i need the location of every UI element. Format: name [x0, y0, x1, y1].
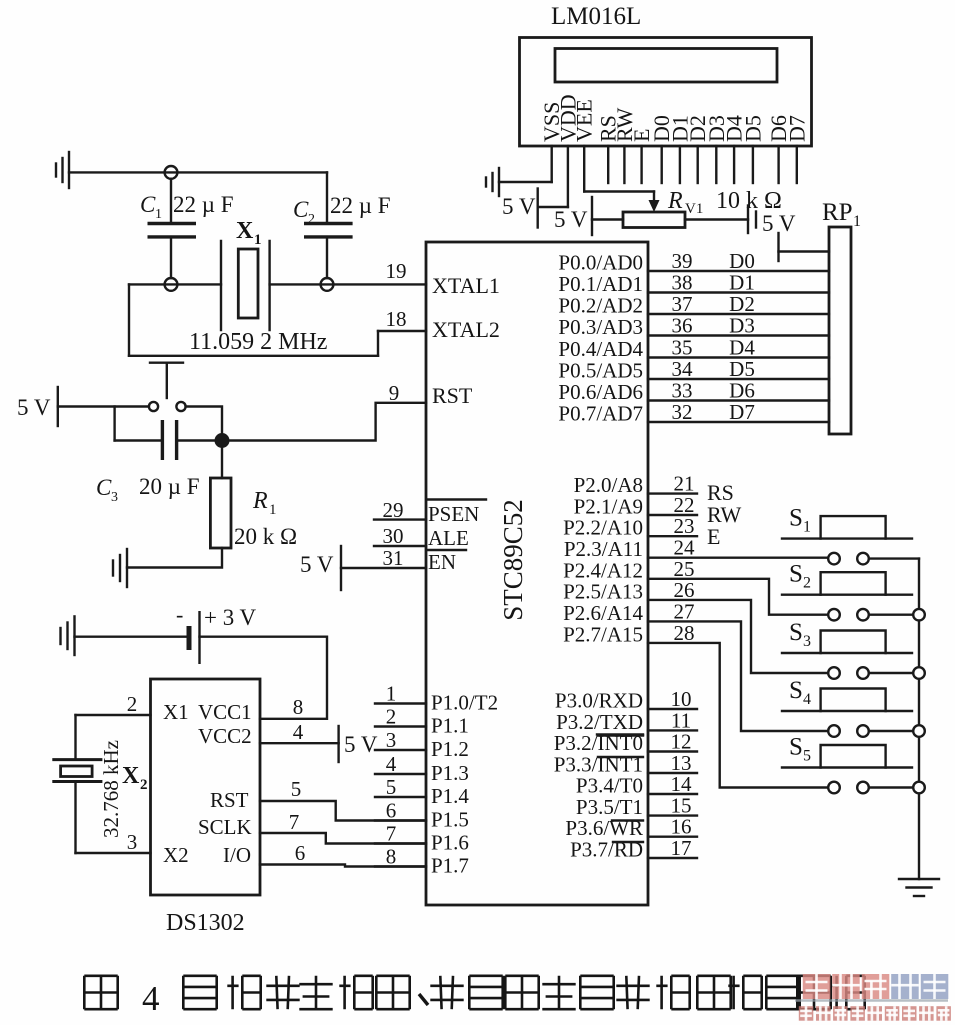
svg-text:+ 3 V: + 3 V: [204, 605, 257, 630]
svg-text:P0.2/AD2: P0.2/AD2: [558, 294, 643, 318]
wire junction down to R1: [221, 441, 223, 479]
svg-text:34: 34: [672, 357, 694, 381]
svg-text:7: 7: [289, 810, 300, 834]
svg-text:PSEN: PSEN: [428, 502, 479, 526]
wire C1 top: [170, 179, 172, 224]
LCD pin stub D4: [733, 146, 735, 183]
wire pin 38 to RP1 (net D1): [648, 291, 829, 293]
svg-text:5 V: 5 V: [17, 395, 51, 420]
wire XTAL2 net bottom rail: [129, 355, 378, 357]
svg-text:6: 6: [295, 841, 306, 865]
svg-text:-: -: [176, 602, 183, 627]
MCU pin 17 stub: [648, 857, 697, 859]
wire branch down to C3: [113, 407, 115, 441]
MCU pin 11 stub: [648, 729, 697, 731]
svg-text:P1.3: P1.3: [431, 761, 469, 785]
svg-text:P1.4: P1.4: [431, 784, 469, 808]
wire P2.3 to switch S1: [648, 557, 827, 559]
svg-text:P1.5: P1.5: [431, 808, 469, 832]
wire S1 to ground bus: [870, 557, 919, 559]
svg-text:R: R: [252, 488, 268, 514]
svg-text:D7: D7: [729, 400, 755, 424]
svg-text:2: 2: [127, 692, 138, 716]
LCD pin stub D6: [777, 146, 779, 183]
svg-text:RST: RST: [432, 383, 473, 408]
battery BT1 3V minus plate: [187, 626, 192, 650]
wire C3 left: [115, 439, 163, 441]
svg-text:P1.1: P1.1: [431, 714, 469, 738]
LCD pin stub VEE: [583, 146, 585, 192]
svg-text:5 V: 5 V: [502, 194, 536, 219]
svg-text:1: 1: [254, 232, 262, 248]
reset button stem: [166, 363, 168, 398]
LCD pin stub RW: [623, 146, 625, 183]
svg-text:11.059 2 MHz: 11.059 2 MHz: [189, 329, 327, 355]
crystal X1 body: [238, 249, 258, 318]
svg-text:X1: X1: [163, 700, 189, 724]
ground for battery: [73, 616, 75, 655]
LCD pin stub D3: [715, 146, 717, 183]
svg-text:S: S: [789, 619, 803, 646]
wire X1 to crystal X2: [74, 715, 76, 760]
wire junction to RST pin: [222, 403, 426, 441]
svg-text:39: 39: [672, 249, 693, 273]
wire pin 33 to RP1 (net D6): [648, 399, 829, 401]
ground bus vertical: [918, 559, 920, 608]
LCD pin stub D0: [661, 146, 663, 183]
svg-text:S: S: [789, 677, 803, 704]
svg-text:8: 8: [293, 695, 304, 719]
svg-text:VEE: VEE: [572, 99, 597, 142]
svg-text:P2.0/A8: P2.0/A8: [574, 473, 643, 497]
svg-text:32: 32: [672, 400, 693, 424]
LCD pin stub D5: [752, 146, 754, 183]
wire XTAL2 net left drop: [128, 284, 130, 355]
wire crystal X2 to pin 3: [74, 782, 76, 854]
caption comma mark: [419, 994, 428, 1005]
RD overline: [613, 841, 643, 843]
bus junction circle S4: [913, 725, 925, 737]
reset button cap: [150, 362, 183, 364]
svg-text:5 V: 5 V: [554, 207, 588, 232]
switch S4 left contact: [828, 725, 840, 737]
svg-text:LM016L: LM016L: [551, 3, 641, 30]
svg-text:22 µ F: 22 µ F: [173, 192, 234, 217]
svg-text:I/O: I/O: [223, 843, 251, 867]
svg-text:33: 33: [672, 379, 693, 403]
svg-text:P3.0/RXD: P3.0/RXD: [555, 689, 643, 713]
svg-text:5: 5: [291, 777, 302, 801]
switch S1 cap: [821, 516, 886, 539]
junction circle at C1 bottom: [165, 278, 178, 291]
wire pin 39 to RP1 (net D0): [648, 270, 829, 272]
svg-text:P0.1/AD1: P0.1/AD1: [558, 272, 643, 296]
MCU pin 22 stub: [648, 514, 697, 516]
ground symbol for switch bus: [899, 878, 939, 880]
bus junction circle S2: [913, 609, 925, 621]
svg-text:P2.6/A14: P2.6/A14: [563, 601, 643, 625]
junction dot reset node: [215, 433, 230, 448]
svg-text:VCC2: VCC2: [198, 724, 252, 748]
svg-text:SCLK: SCLK: [198, 815, 252, 839]
bus junction circle S5: [913, 782, 925, 794]
svg-text:5 V: 5 V: [300, 552, 334, 577]
svg-text:1: 1: [853, 213, 861, 230]
junction circle at C2 bottom: [321, 278, 334, 291]
svg-text:23: 23: [674, 514, 695, 538]
MCU pin 5 stub: [375, 796, 426, 798]
switch S1 left contact: [828, 553, 840, 565]
svg-text:19: 19: [386, 259, 407, 283]
DS1302 pin 2 stub: [76, 714, 151, 716]
wire LCD VEE to RV1 wiper: [584, 190, 654, 192]
reset button left contact: [149, 402, 158, 411]
svg-text:STC89C52: STC89C52: [498, 499, 528, 621]
WR overline: [612, 819, 643, 821]
MCU pin 13 stub: [648, 772, 697, 774]
DS1302 pin 4 wire to 5V: [260, 742, 339, 744]
capacitor C3 plates: [161, 420, 164, 460]
switch S2 bridge bar: [782, 594, 912, 596]
crystal X2 top plate: [52, 758, 102, 761]
svg-text:D4: D4: [729, 336, 755, 360]
svg-text:37: 37: [672, 292, 693, 316]
wire P2.6 to switch S4: [648, 621, 827, 731]
svg-text:P2.2/A10: P2.2/A10: [563, 516, 643, 540]
svg-text:1: 1: [155, 207, 162, 222]
LCD display window: [555, 49, 777, 83]
svg-text:22 µ F: 22 µ F: [330, 193, 391, 218]
RV1 wiper arrow: [649, 200, 660, 212]
wire S2 to ground bus: [870, 614, 912, 616]
DS1302 I/O wire to P1.7: [260, 865, 426, 867]
svg-text:5: 5: [803, 748, 811, 765]
capacitor C1 plates: [148, 222, 197, 225]
wire C3 right to junction: [177, 439, 222, 441]
svg-text:2: 2: [140, 777, 148, 793]
LCD pin stub RS: [607, 146, 609, 183]
svg-text:S: S: [789, 734, 803, 761]
potentiometer RV1 body: [623, 212, 685, 228]
wire 5V to reset button: [58, 405, 149, 407]
MCU STC89C52 box: [426, 242, 648, 905]
svg-text:4: 4: [386, 752, 397, 776]
svg-text:3: 3: [803, 633, 811, 650]
svg-text:2: 2: [386, 705, 397, 729]
svg-text:38: 38: [672, 271, 693, 295]
wire RV1 to right 5V terminal: [685, 218, 748, 220]
crystal X1 left plate: [220, 241, 222, 330]
wire XTAL2 net riser: [377, 331, 379, 356]
MCU pin 4 stub: [375, 773, 426, 775]
svg-text:D5: D5: [729, 357, 755, 381]
svg-text:10: 10: [671, 687, 692, 711]
MCU pin 3 stub: [375, 749, 426, 751]
svg-text:5: 5: [386, 775, 397, 799]
MCU pin 21 stub: [648, 492, 697, 494]
DS1302 RST wire to P1.5: [260, 801, 426, 821]
bus junction circle S3: [913, 667, 925, 679]
switch S5 right contact: [857, 782, 869, 794]
svg-text:P1.2: P1.2: [431, 737, 469, 761]
DS1302 pin 3 stub: [76, 852, 151, 854]
5V terminal bars right of RV1: [747, 206, 749, 234]
TXD underline: [597, 733, 643, 735]
svg-text:7: 7: [386, 822, 397, 846]
wire ground to battery: [75, 636, 187, 638]
svg-text:C: C: [96, 475, 112, 500]
LCD pin stub VSS: [551, 146, 553, 182]
svg-text:RP: RP: [822, 199, 853, 226]
svg-text:3: 3: [127, 830, 138, 854]
svg-text:D7: D7: [784, 115, 809, 142]
svg-text:3: 3: [111, 490, 118, 505]
svg-text:S: S: [789, 505, 803, 532]
svg-text:36: 36: [672, 314, 693, 338]
svg-text:20 µ F: 20 µ F: [139, 474, 200, 499]
MCU pin 10 stub: [648, 708, 697, 710]
reset button right contact: [176, 402, 185, 411]
svg-text:P0.4/AD4: P0.4/AD4: [558, 337, 643, 361]
switch S2 cap: [821, 572, 886, 595]
svg-text:12: 12: [671, 730, 692, 754]
crystal X1 right plate: [268, 241, 270, 330]
INT0 overline: [598, 734, 643, 736]
MCU pin 15 stub: [648, 814, 697, 816]
svg-text:D0: D0: [729, 249, 755, 273]
switch S4 right contact: [857, 725, 869, 737]
svg-text:6: 6: [386, 799, 397, 823]
svg-text:ALE: ALE: [428, 526, 469, 550]
svg-text:14: 14: [671, 772, 693, 796]
svg-text:P2.7/A15: P2.7/A15: [563, 622, 643, 646]
ground for LCD VSS: [499, 181, 552, 183]
switch S4 bridge bar: [782, 710, 912, 712]
MCU pin 7 stub: [375, 842, 426, 844]
svg-text:EN: EN: [428, 550, 456, 574]
wire C2 bottom: [326, 237, 328, 278]
svg-text:3: 3: [386, 728, 397, 752]
svg-text:X: X: [236, 218, 254, 244]
MCU pin 1 stub: [375, 702, 426, 704]
resistor R1 body: [210, 478, 231, 548]
svg-text:4: 4: [142, 979, 160, 1018]
wire XTAL2 stub: [378, 330, 426, 332]
svg-text:C: C: [293, 197, 309, 222]
svg-text:32.768 kHz: 32.768 kHz: [99, 740, 123, 838]
svg-text:1: 1: [386, 682, 397, 706]
RTC DS1302 box: [151, 679, 261, 895]
wire battery to VCC1 pin 8: [200, 637, 328, 719]
wire C2 top drop: [326, 172, 328, 223]
switch S5 bridge bar: [782, 766, 912, 768]
switch S5 cap: [821, 745, 886, 768]
switch S1 right contact: [857, 553, 869, 565]
svg-text:DS1302: DS1302: [166, 910, 245, 936]
battery BT1 3V plus plate: [198, 611, 200, 664]
svg-text:26: 26: [674, 578, 695, 602]
wire pin 34 to RP1 (net D5): [648, 378, 829, 380]
svg-text:E: E: [707, 524, 720, 549]
LCD pin stub D7: [796, 146, 798, 183]
DS1302 SCLK wire to P1.6: [260, 833, 426, 844]
svg-text:X2: X2: [163, 843, 189, 867]
junction circle at C1 top: [165, 166, 178, 179]
svg-text:P0.0/AD0: P0.0/AD0: [558, 251, 643, 275]
switch S3 right contact: [857, 667, 869, 679]
svg-text:D3: D3: [729, 314, 755, 338]
crystal X2 bottom plate: [52, 780, 102, 783]
svg-text:S: S: [789, 561, 803, 588]
svg-text:P1.0/T2: P1.0/T2: [431, 691, 498, 715]
wire R1 bottom to ground: [127, 548, 222, 568]
MCU pin 8 stub: [375, 865, 426, 867]
svg-text:D6: D6: [729, 379, 755, 403]
INT1 overline: [598, 756, 643, 758]
svg-text:P1.7: P1.7: [431, 854, 469, 878]
5V terminal for VCC2: [337, 726, 339, 762]
svg-text:30: 30: [383, 524, 404, 548]
wire C1 bottom: [170, 237, 172, 278]
wire S4 to ground bus: [870, 730, 912, 732]
switch S3 bridge bar: [782, 652, 912, 654]
svg-text:R: R: [667, 188, 683, 214]
5V terminal for EN: [340, 546, 342, 590]
LCD module outer box: [520, 38, 812, 147]
switch S3 left contact: [828, 667, 840, 679]
wire P2.4 to switch S2: [648, 579, 827, 615]
svg-text:17: 17: [671, 836, 692, 860]
svg-text:27: 27: [674, 599, 695, 623]
resistor pack RP1 body: [829, 227, 851, 434]
svg-text:9: 9: [389, 381, 400, 405]
switch S4 cap: [821, 689, 886, 712]
wire 5V terminal to RP1: [779, 250, 830, 252]
watermark big text line 1: [803, 974, 831, 999]
svg-text:P0.5/AD5: P0.5/AD5: [558, 359, 643, 383]
wire S5 to ground bus: [870, 786, 912, 788]
svg-text:35: 35: [672, 336, 693, 360]
wire 5V to RV1: [592, 218, 623, 220]
MCU pin 2 stub: [375, 725, 426, 727]
MCU pin 16 stub: [648, 836, 697, 838]
svg-text:28: 28: [674, 621, 695, 645]
MCU pin 12 stub: [648, 750, 697, 752]
svg-text:VCC1: VCC1: [198, 700, 252, 724]
svg-text:D2: D2: [729, 292, 755, 316]
capacitor C2 plates: [304, 222, 353, 225]
svg-text:XTAL2: XTAL2: [432, 317, 500, 342]
ground top-left: [68, 152, 70, 188]
MCU pin 14 stub: [648, 793, 697, 795]
MCU pin 6 stub: [375, 819, 426, 821]
watermark rule: [795, 999, 948, 1002]
svg-text:D5: D5: [740, 115, 765, 142]
svg-text:P2.5/A13: P2.5/A13: [563, 579, 643, 603]
caption: figure 4 title (faux CJK glyphs): [84, 976, 117, 1009]
5V terminal for RP1: [777, 233, 779, 261]
svg-text:X: X: [122, 763, 140, 789]
switch S5 left contact: [828, 782, 840, 794]
LCD pin stub D1: [679, 146, 681, 183]
switch S2 left contact: [828, 609, 840, 621]
switch S2 right contact: [857, 609, 869, 621]
wire P2.7 to switch S5: [648, 643, 827, 788]
svg-text:20 k Ω: 20 k Ω: [234, 524, 297, 549]
LCD pin stub E: [640, 146, 642, 183]
LCD pin stub VDD: [567, 146, 569, 207]
wire S3 to ground bus: [870, 672, 912, 674]
switch S1 bridge bar: [782, 537, 912, 539]
svg-text:V1: V1: [685, 201, 703, 217]
svg-text:P0.3/AD3: P0.3/AD3: [558, 315, 643, 339]
svg-text:5 V: 5 V: [344, 732, 378, 757]
svg-text:P1.6: P1.6: [431, 831, 469, 855]
svg-text:8: 8: [386, 845, 397, 869]
ground below R1: [126, 549, 128, 587]
svg-text:1: 1: [269, 502, 277, 518]
svg-text:4: 4: [803, 691, 811, 708]
svg-text:18: 18: [386, 307, 407, 331]
LCD pin stub D2: [697, 146, 699, 183]
watermark small text line 2: [799, 1006, 814, 1021]
MCU pin 23 stub: [648, 535, 697, 537]
wire button to junction: [186, 407, 222, 435]
svg-text:21: 21: [674, 472, 695, 496]
crystal X2 body: [61, 766, 93, 777]
wire pin 37 to RP1 (net D2): [648, 313, 829, 315]
svg-text:1: 1: [803, 519, 811, 536]
wire XTAL1 net: [129, 283, 221, 285]
wire pin 32 to RP1 (net D7): [648, 421, 829, 423]
svg-text:C: C: [140, 192, 156, 217]
svg-text:P3.4/T0: P3.4/T0: [576, 774, 643, 798]
svg-text:4: 4: [293, 720, 304, 744]
wire P2.5 to switch S3: [648, 600, 827, 673]
svg-text:31: 31: [383, 546, 404, 570]
wire pin 36 to RP1 (net D3): [648, 334, 829, 336]
wire ground to C1/C2 top rail: [69, 171, 327, 173]
wire pin 35 to RP1 (net D4): [648, 356, 829, 358]
svg-text:RST: RST: [210, 788, 249, 812]
svg-text:XTAL1: XTAL1: [432, 273, 500, 298]
svg-text:2: 2: [803, 575, 811, 592]
svg-text:P0.7/AD7: P0.7/AD7: [558, 402, 643, 426]
svg-text:D1: D1: [729, 271, 755, 295]
switch S3 cap: [821, 631, 886, 654]
svg-text:P0.6/AD6: P0.6/AD6: [558, 380, 643, 404]
